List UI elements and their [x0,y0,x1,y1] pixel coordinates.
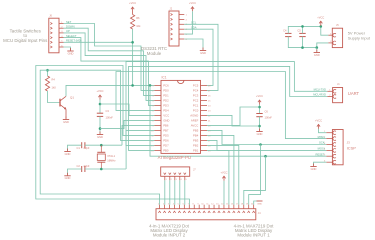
junction C3 top node [99,103,102,106]
svg-text:+VCC: +VCC [317,15,324,19]
svg-text:16MHz: 16MHz [107,159,116,163]
wire J6 pin6 to ground [64,47,71,50]
wire crystal bottom node to IC1 PB7 [126,130,154,169]
junction C6 top node [258,106,261,109]
wire SET (J6 pin1 to IC1 PD0) [64,24,155,91]
ground at J4 right end [257,201,263,205]
wire R6 stub [132,12,134,15]
svg-text:GND: GND [97,135,103,139]
svg-text:PB1: PB1 [193,149,199,153]
wire SCK branch down to J4 pin19 [249,145,261,205]
wire J2 VCC pin to +VCC [184,11,192,34]
ground below Q1 [63,117,69,124]
svg-text:PB3: PB3 [193,139,199,143]
connector J4 (display module header) [156,203,261,219]
wire VCC node to IC1 VCC pin [100,104,155,115]
note text: DS3231 RTC Module [141,46,167,56]
svg-text:IC1: IC1 [162,76,167,80]
svg-text:PB2: PB2 [193,144,199,148]
junction C6 bottom node [258,125,261,128]
connector J1 UART [327,82,359,103]
connector J7 (display jumper header) [161,167,197,181]
capacitor C6 [256,110,272,120]
svg-text:22pF: 22pF [84,164,90,168]
svg-text:Supply Input: Supply Input [348,35,371,40]
wire SCK (IC1 PB5 to ICSP pin3) [207,130,326,144]
ground below ICSP [310,164,316,171]
wire Q1 collector to IC1 PC6/RESET pin [66,85,155,96]
wire AVCC pin to C6 node [207,107,260,125]
svg-text:Q1: Q1 [70,96,74,100]
power +VCC above J2 [189,1,196,11]
svg-text:+VCC: +VCC [189,1,196,5]
wire C5 bottom stub [302,37,304,48]
power +VCC above ICSP J3 [315,119,322,129]
svg-text:GND: GND [163,119,169,123]
svg-text:RESET: RESET [316,152,325,156]
net label UP [66,29,70,33]
svg-text:PC6: PC6 [163,84,169,88]
wire RESET branch to ICSP connector [150,85,326,156]
svg-text:+VCC: +VCC [129,1,136,5]
note text: Tactile Switches to MCU Digital Input Pins [3,28,48,43]
wire C2 to ground [68,169,82,175]
svg-text:+VCC: +VCC [315,119,322,123]
net label MCU-TXD [314,87,326,91]
svg-text:GND: GND [65,176,71,180]
wire R4 top to display loop net [47,70,49,76]
svg-text:PC4: PC4 [193,89,199,93]
svg-text:PD3: PD3 [163,104,169,108]
svg-text:GND: GND [311,167,317,171]
wire MCU-TXD (IC1 PD7 over IC to UART J1 pin1) [126,62,327,146]
junction RESET at switch wire [131,41,134,44]
wire C5 top stub [302,26,304,33]
svg-text:PB5: PB5 [193,129,199,133]
power +VCC above J4 display header [221,170,228,180]
svg-text:C1: C1 [77,146,81,150]
wire +VCC to J4 pin14 [223,181,225,205]
svg-text:PB6: PB6 [163,124,169,128]
power +VCC above R6 [129,1,136,11]
net label MOSI [318,147,325,151]
capacitor C2 [77,164,90,172]
svg-text:PD7: PD7 [163,144,169,148]
net label SCL [191,21,197,25]
svg-text:ICSP: ICSP [347,145,357,150]
capacitor C1 [77,142,90,150]
wire C2 to crystal bottom node [85,168,126,170]
svg-text:MCU Digital Input Pins: MCU Digital Input Pins [3,38,48,43]
svg-text:UART: UART [348,91,360,96]
wire MCU-RXD (IC1 PB0 over IC to UART J1 pin2) [129,66,328,150]
wire J4 pin20 to ground [254,201,260,205]
wire +VCC to ICSP pin1 [319,129,327,133]
net label SET [66,20,72,24]
junction crystal bottom node [100,168,103,171]
svg-text:Module INPUT 1: Module INPUT 1 [237,233,270,238]
wires J7 pins down to J4 header [165,180,185,204]
net label RESET (MD) [66,39,82,43]
svg-text:+VCC: +VCC [256,94,263,98]
wire SCL J2 pin3 to IC1 PC4 [184,24,218,90]
svg-text:100nF: 100nF [265,116,273,120]
junction C5 top [301,25,304,28]
crystal XTAL1 16MHz [97,145,116,169]
connector J3 ICSP [324,130,356,165]
wire C1 to crystal top node [85,144,122,146]
wire UP (J6 pin3 to IC1 PD2 and left loop) [64,33,155,101]
svg-text:VCC: VCC [163,114,169,118]
note text: 4-in-1 MAX7219 Dot Matrix LED Display Module INPUT 1 [234,224,275,238]
svg-text:R6: R6 [136,16,140,20]
svg-text:GND: GND [257,203,262,205]
capacitor C5 [297,28,305,36]
transistor Q1 [60,96,74,110]
ground below 5V connector [314,50,320,57]
wire +VCC to C3 node [99,100,101,114]
svg-text:PC5: PC5 [193,84,199,88]
wire display data loop A (IC1 PD5 around left side to J4 pin1) [36,66,190,205]
net label SDA [191,25,197,29]
svg-text:GND: GND [63,120,69,124]
ground below J6 [67,48,73,55]
svg-text:PD1: PD1 [163,94,169,98]
wire DOWN (J6 pin2 to IC1 PD1) [64,28,155,95]
net label SCK [319,141,325,145]
svg-text:C6: C6 [265,110,269,114]
svg-text:GND: GND [200,51,206,55]
capacitor C3 [97,109,113,119]
svg-text:ATmega328P-PU: ATmega328P-PU [158,155,191,160]
ground left of C1 [64,149,70,156]
svg-text:GND: GND [65,152,71,156]
junction +VCC rail [320,25,323,28]
wire GND node to IC1 GND pin [100,120,155,128]
wire C6 bottom to ground [259,117,261,131]
svg-text:MISO: MISO [318,135,325,139]
ground below C6 [256,129,262,136]
svg-text:MCU-RXD: MCU-RXD [313,93,326,97]
svg-text:PC3: PC3 [193,94,199,98]
svg-text:GND: GND [68,51,74,55]
wire MOSI (IC1 PB3 to ICSP pin4) [207,140,326,150]
svg-text:Module INPUT 2: Module INPUT 2 [153,233,186,238]
wire R4 bottom to Q1 base [48,91,60,103]
wire +VCC to C6 node [259,105,261,114]
net label MCU-RXD [313,93,326,97]
svg-text:PD6: PD6 [163,139,169,143]
svg-text:+VCC: +VCC [221,170,228,174]
junction RESET branch to ICSP [149,84,152,87]
ground below J2 [200,48,206,55]
svg-text:AVCC: AVCC [191,124,199,128]
wire crystal top node to IC1 PB6 [122,125,155,145]
junction R4 top [46,69,49,72]
svg-text:C2: C2 [77,164,81,168]
svg-text:XTAL1: XTAL1 [107,154,115,158]
svg-text:22pF: 22pF [84,146,90,150]
svg-text:PC1: PC1 [193,104,199,108]
svg-text:PD2: PD2 [163,99,169,103]
svg-text:GND: GND [257,132,263,136]
wire bottom ground rail [288,37,328,48]
junction ground rail [316,46,319,49]
wire ground rail to GND [316,48,318,52]
wire MISO (IC1 PD4 over IC to ICSP J3 pin2) [116,72,326,139]
connector J2 (DS3231 RTC module header) [169,6,188,46]
net label SELECT [66,34,77,38]
wire IC1 PB4 down to J4 pin16 [207,135,234,204]
svg-text:+VCC: +VCC [97,89,104,93]
svg-text:AGND: AGND [190,114,198,118]
svg-text:PB0: PB0 [163,149,169,153]
wire C3 bottom to ground node [99,116,101,133]
ground below C3 [97,132,103,139]
svg-text:Module: Module [147,51,162,56]
svg-text:PD4: PD4 [163,109,169,113]
wire C1 to ground [68,145,82,150]
op-amp IC1 ATmega328P-PU microcontroller [151,76,211,160]
resistor R4 [45,76,56,91]
svg-text:PC2: PC2 [193,99,199,103]
net label DOWN [66,25,75,29]
wire SELECT (J6 pin4 to IC1 PD3) [64,38,155,106]
wire IC1 PB1 down to J4 pin15 [207,150,229,204]
connector J5 5V power input [328,23,342,48]
capacitor C4 [283,28,291,36]
resistor R6 [131,15,142,30]
wire ICSP pin6 to ground [314,162,327,165]
svg-text:C3: C3 [106,109,110,113]
note text: 4-in-1 MAX7219 Dot Matrix LED Display Module INPUT 2 [149,224,190,238]
power +VCC above C6 [256,94,263,104]
wire top power rail [288,26,328,35]
wire RESET (MD) from J6 pin5 to R6 node [64,41,133,43]
wire RESET vertical R6 to PC6 net [132,29,134,85]
svg-text:J3: J3 [347,140,351,144]
ground left of C2 [64,173,70,180]
junction C5 bottom [301,46,304,49]
power +VCC above C3 [97,89,104,99]
junction RESET at PC6 wire [131,84,134,87]
svg-text:C5: C5 [297,28,301,32]
svg-text:C4: C4 [283,28,287,32]
svg-text:R4: R4 [52,78,56,82]
svg-text:PB4: PB4 [193,134,199,138]
junction SCK branch [259,143,262,146]
svg-text:MCU-TXD: MCU-TXD [314,87,326,91]
wire SDA J2 pin4 to IC1 PC5 [184,29,213,85]
wire Q1 emitter to ground [65,109,67,118]
junction C3 bottom node [99,127,102,130]
net label RESET [316,152,325,156]
wire display data loop B (IC1 PD6 around left side to J4 pin7) [40,70,159,205]
svg-text:PD5: PD5 [163,134,169,138]
wire RESET branch down to J4 pin18 [244,156,266,205]
svg-text:AREF: AREF [191,119,199,123]
junction crystal top node [100,144,103,147]
wire AGND pin to C6 ground node [207,115,260,126]
svg-text:GND: GND [314,53,320,57]
svg-text:100nF: 100nF [106,115,114,119]
svg-text:PC0: PC0 [193,109,199,113]
svg-text:PB7: PB7 [163,129,169,133]
connector J6 (tactile switches header) [49,14,64,53]
wire J2 GND pin to ground [184,39,203,50]
net label MISO [318,135,325,139]
svg-text:1k0: 1k0 [52,85,57,89]
svg-text:PD0: PD0 [163,89,169,93]
wire IC1 PB2 down to J4 pin17 [207,145,239,204]
junction RESET branch to display [264,155,267,158]
note text: 5V Power Supply Input [348,31,371,41]
power +VCC above 5V connector [317,15,324,25]
svg-text:10k: 10k [136,24,141,28]
